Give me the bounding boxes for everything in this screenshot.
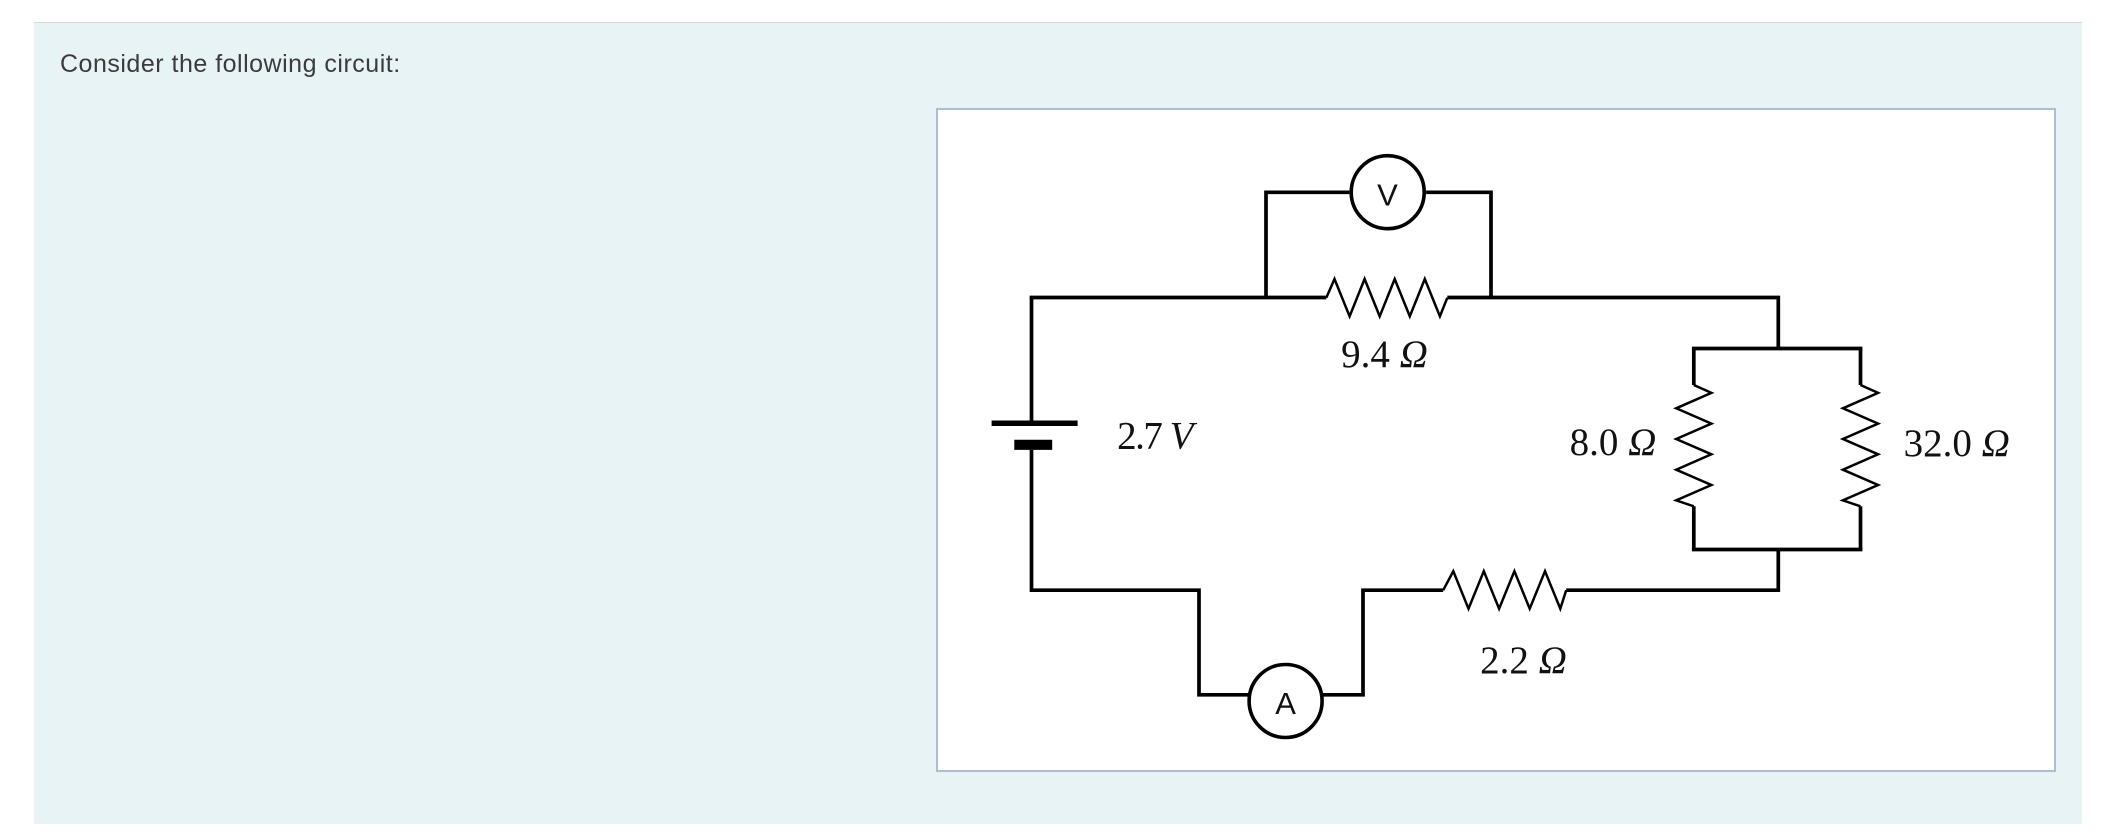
wire: voltmeter loop right side	[1426, 192, 1491, 297]
svg-text:2.7 V: 2.7 V	[1117, 415, 1198, 458]
resistor R 32.0 ohm branch	[1859, 349, 1863, 386]
battery V1 top lead	[1030, 298, 1034, 421]
wire: top rail right of 9.4 ohm resistor	[1447, 298, 1778, 349]
svg-text:9.4 Ω: 9.4 Ω	[1341, 333, 1428, 376]
wire: parallel block top rail	[1692, 347, 1863, 351]
resistor R 8.0 ohm branch	[1692, 349, 1696, 386]
voltmeter U1 circle	[1351, 156, 1424, 229]
battery V1 bottom lead	[1030, 450, 1034, 592]
svg-text:2.2 Ω: 2.2 Ω	[1480, 639, 1567, 682]
resistor R 2.2 ohm	[1443, 571, 1566, 609]
svg-text:32.0 Ω: 32.0 Ω	[1904, 422, 2010, 465]
ammeter U2 circle	[1249, 665, 1322, 738]
wire: ammeter right to bottom rail	[1320, 590, 1443, 695]
battery V1 short plate	[1014, 440, 1052, 450]
wire: top rail from battery to right junction	[1032, 298, 1327, 300]
resistor R 9.4 ohm	[1326, 279, 1447, 316]
white schematic box	[937, 109, 2055, 771]
wire: voltmeter loop left vertical	[1266, 192, 1349, 297]
wire: bottom rail left segment	[1032, 590, 1252, 695]
svg-text:8.0 Ω: 8.0 Ω	[1570, 421, 1657, 464]
wire: bottom rail right segment	[1566, 550, 1778, 591]
wire: parallel block bottom rail	[1692, 548, 1863, 552]
svg-text:A: A	[1275, 686, 1296, 721]
title text	[60, 50, 401, 79]
battery V1 long plate	[992, 421, 1078, 427]
svg-text:V: V	[1377, 178, 1398, 213]
